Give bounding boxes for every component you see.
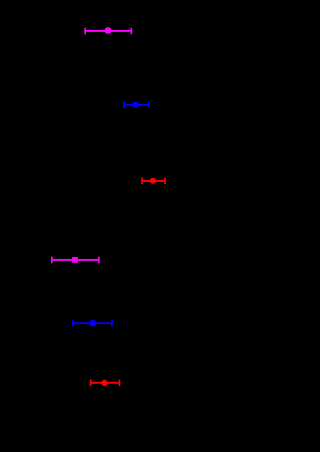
marker 2: blue square [133,102,139,108]
marker 4: magenta square [72,257,78,263]
marker 5: blue circle [89,320,96,327]
data point 2: blue error bar [124,102,149,109]
data point 3: red error bar [142,178,165,185]
data point 1: magenta error bar [85,28,131,35]
marker 2b: small blue bump on line [138,104,142,106]
marker 6: red circle [101,380,107,386]
marker 3: red circle [150,178,156,184]
marker 1: magenta circle [105,27,112,34]
data point 4: magenta error bar [52,257,99,264]
data point 6: red error bar [91,380,120,387]
data point 5: blue error bar [73,320,112,327]
